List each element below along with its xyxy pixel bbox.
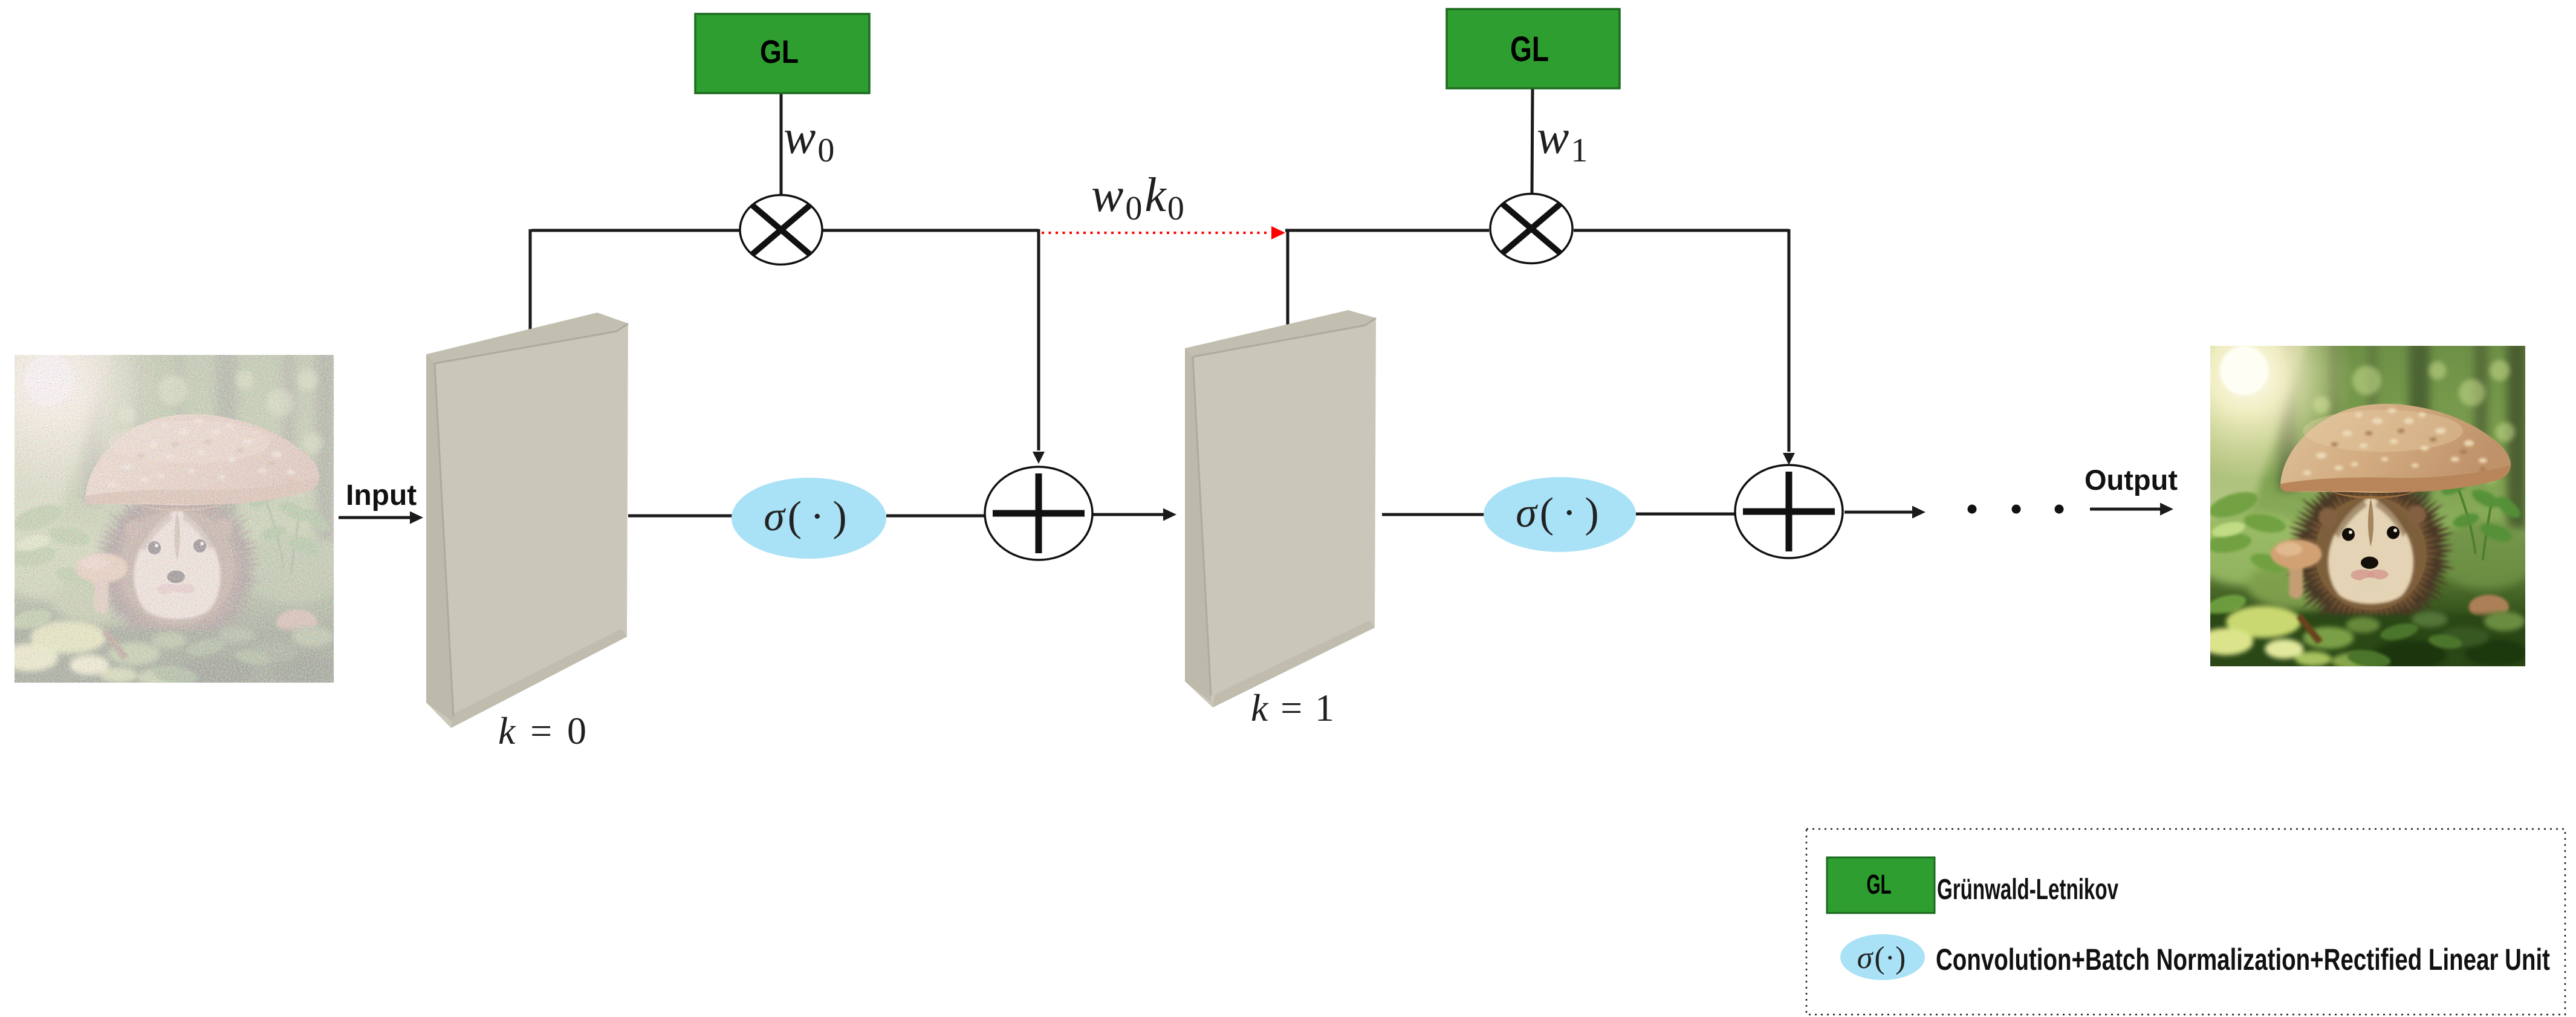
svg-text:GL: GL xyxy=(1867,869,1892,900)
svg-text:k = 0: k = 0 xyxy=(498,709,586,752)
svg-text:Convolution+Batch Normalizatio: Convolution+Batch Normalization+Rectifie… xyxy=(1936,943,2550,976)
svg-text:σ( · ): σ( · ) xyxy=(764,493,847,540)
svg-text:w0: w0 xyxy=(784,111,834,169)
svg-text:σ(·): σ(·) xyxy=(1857,941,1906,975)
svg-text:Output: Output xyxy=(2084,464,2178,496)
svg-text:Input: Input xyxy=(346,479,417,512)
svg-text:GL: GL xyxy=(760,34,799,70)
svg-text:w1: w1 xyxy=(1537,111,1588,169)
svg-text:Grünwald-Letnikov: Grünwald-Letnikov xyxy=(1937,874,2118,906)
svg-text:w0k0: w0k0 xyxy=(1091,169,1184,227)
svg-text:GL: GL xyxy=(1510,30,1549,69)
svg-text:k = 1: k = 1 xyxy=(1251,686,1334,729)
svg-text:σ( · ): σ( · ) xyxy=(1516,490,1599,536)
